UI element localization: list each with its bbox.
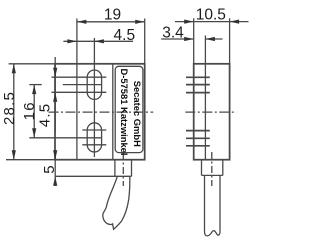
svg-text:16: 16 — [21, 101, 38, 120]
svg-text:4.5: 4.5 — [114, 27, 136, 44]
svg-text:4.5: 4.5 — [37, 103, 54, 127]
svg-text:28.5: 28.5 — [1, 91, 18, 125]
svg-text:10.5: 10.5 — [196, 6, 226, 23]
svg-text:3.4: 3.4 — [162, 24, 184, 41]
svg-text:19: 19 — [104, 7, 121, 24]
svg-text:D-57581 Katzwinkel: D-57581 Katzwinkel — [119, 68, 130, 155]
svg-text:5: 5 — [41, 164, 58, 174]
svg-text:Secatec GmbH: Secatec GmbH — [132, 81, 143, 147]
